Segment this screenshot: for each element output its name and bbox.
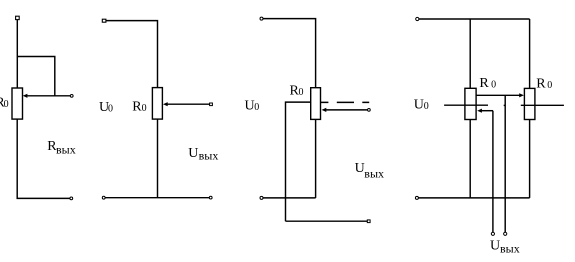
terminal (circle, circuit 1 bottom) [70,197,73,200]
svg-text:U: U [245,98,255,113]
wire (circuit 3, bottom lead) [315,119,317,197]
wire (circuit 4, left bottom lead) [469,120,471,198]
wire (circuit 4, bottom horizontal) [418,197,529,199]
terminal (circle, circuit 1 wiper output) [70,95,73,98]
terminal (square, circuit 2 wiper output) [210,103,213,106]
mechanical coupling dot (circuit 4 middle) [504,104,506,106]
svg-text:U: U [490,238,500,253]
svg-text:0: 0 [4,99,9,110]
wiper arrow (circuit 4 left resistor) [477,109,482,113]
resistor R0 (circuit 4 right) [524,88,535,119]
svg-text:U: U [414,98,424,113]
terminal (square, circuit 2 top left) [102,19,106,22]
wire (circuit 3, bottom horizontal) [263,197,316,199]
wire (circuit 3, wiper horizontal) [325,109,367,111]
terminal (circle, circuit 4 top left) [416,17,419,20]
svg-text:вых: вых [56,143,76,157]
resistor R0 (circuit 2) [152,88,162,120]
svg-text:U: U [355,161,365,176]
terminal (circle, circuit 3 top left) [260,17,263,20]
wiper arrow (circuit 1) [23,94,28,98]
wire (circuit 1, top vertical lead) [16,20,18,88]
terminal (circle, circuit 2 bottom left) [102,196,105,199]
mechanical coupling line (circuit 4 left resistor) [444,104,488,106]
terminal (circle, circuit 2 bottom right) [209,196,212,199]
wire (circuit 4, right top lead) [529,19,531,88]
wire (circuit 2, top horizontal and vertical lead) [106,21,158,88]
terminal (circle, circuit 4 output left) [491,232,494,235]
wire (circuit 4, vertical from link down to output) [504,95,506,232]
svg-text:0: 0 [547,80,552,91]
terminal (circle, circuit 3 wiper output) [368,109,371,112]
wire (circuit 4, top horizontal) [419,18,530,20]
svg-text:R: R [536,76,546,91]
terminal (square, circuit 3 lower output) [367,220,370,223]
dashed wiper travel line (circuit 3) [321,101,370,103]
wire (circuit 2, bottom lead) [157,119,159,198]
wire (circuit 4, link from left resistor to right wiper) [476,94,519,96]
wire (circuit 4, left top lead) [469,19,471,88]
wire (circuit 3, left tap going down) [286,102,311,221]
svg-text:U: U [188,146,198,161]
wire (circuit 1, bottom lead and bottom horizontal) [17,119,70,198]
terminal (circle, circuit 4 bottom left) [415,196,418,199]
svg-text:0: 0 [299,87,304,98]
wire (circuit 2, bottom horizontal) [105,197,209,199]
svg-text:вых: вых [199,149,219,163]
wire (circuit 1, loop from top lead to wiper) [17,57,55,96]
wiper arrow (circuit 4 right resistor) [519,93,524,97]
wire (circuit 2, wiper horizontal) [167,103,210,105]
wire (circuit 4, left wiper horizontal) [481,110,493,112]
terminal (circle, circuit 4 output right) [504,232,507,235]
wiper arrow (circuit 3) [322,108,327,112]
terminal (circle, circuit 3 bottom left) [260,196,263,199]
svg-text:0: 0 [254,102,259,113]
mechanical coupling line (circuit 4 right resistor) [521,104,564,106]
svg-text:0: 0 [424,101,429,112]
wiper arrow (circuit 2) [163,102,168,106]
wire (circuit 4, right bottom lead) [529,120,531,198]
svg-text:0: 0 [108,103,113,114]
resistor R0 (circuit 4 left) [465,88,476,119]
svg-text:вых: вых [500,241,520,255]
resistor R0 (circuit 1) [12,88,23,119]
wire (circuit 3, lower output horizontal) [286,220,368,222]
wire (circuit 3, top horizontal and vertical lead) [263,19,316,88]
wire (circuit 4, left wiper vertical down to output) [492,111,494,233]
svg-text:0: 0 [491,80,496,91]
svg-text:вых: вых [364,167,384,181]
wire (circuit 1, wiper horizontal) [27,95,71,97]
terminal (square, circuit 1 top) [16,16,20,19]
resistor R0 (circuit 3) [311,88,321,120]
svg-text:0: 0 [142,103,147,114]
svg-text:R: R [479,76,489,91]
